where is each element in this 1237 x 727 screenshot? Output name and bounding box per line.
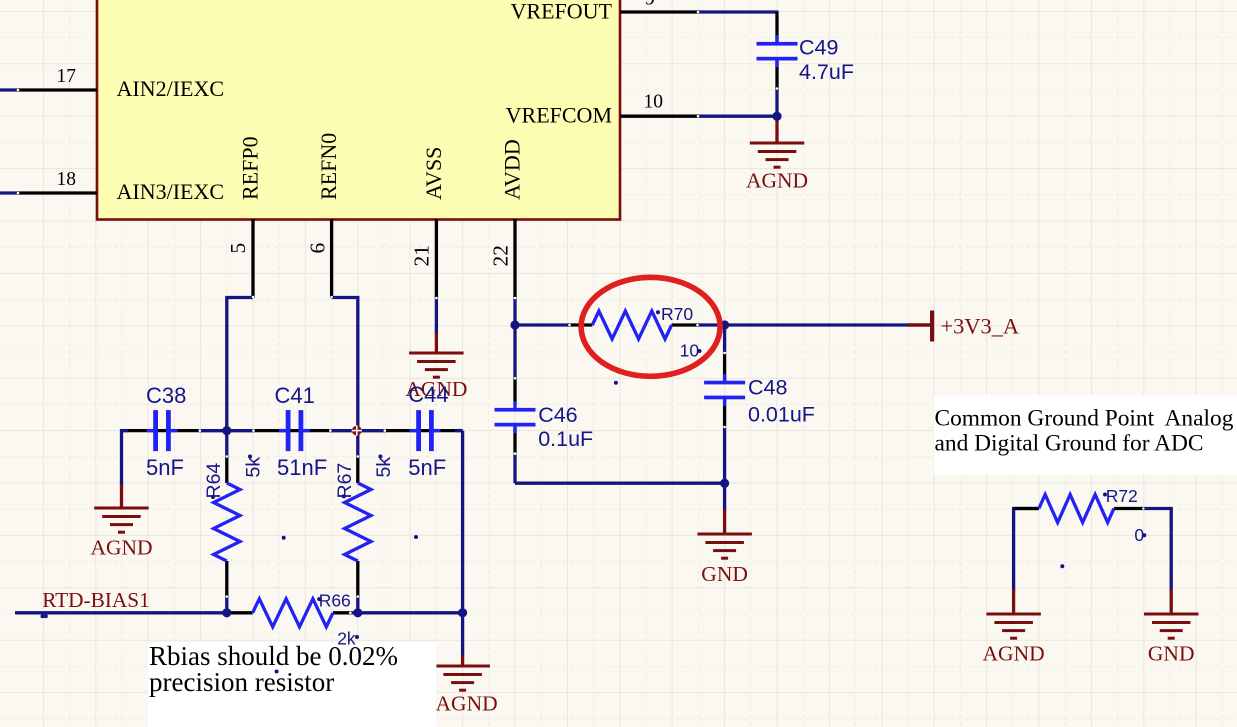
svg-text:5k: 5k <box>373 457 395 478</box>
svg-text:+3V3_A: +3V3_A <box>941 314 1020 339</box>
svg-text:REFP0: REFP0 <box>238 136 263 200</box>
svg-text:GND: GND <box>1148 642 1195 666</box>
svg-text:VREFOUT: VREFOUT <box>511 0 613 24</box>
svg-text:5nF: 5nF <box>146 455 184 480</box>
svg-text:R66: R66 <box>319 591 351 611</box>
svg-text:0.1uF: 0.1uF <box>538 427 593 451</box>
svg-text:Common Ground Point Analog: Common Ground Point Analog <box>935 406 1234 432</box>
svg-text:22: 22 <box>489 245 513 267</box>
svg-text:AVSS: AVSS <box>421 147 446 200</box>
svg-text:and Digital Ground for ADC: and Digital Ground for ADC <box>935 431 1204 457</box>
svg-text:51nF: 51nF <box>277 455 327 480</box>
svg-text:AIN2/IEXC: AIN2/IEXC <box>117 76 225 101</box>
svg-text:AIN3/IEXC: AIN3/IEXC <box>117 179 225 204</box>
svg-text:AGND: AGND <box>90 536 152 560</box>
svg-text:VREFCOM: VREFCOM <box>506 103 612 128</box>
svg-text:17: 17 <box>57 66 77 87</box>
svg-text:5: 5 <box>226 243 250 254</box>
svg-text:2k: 2k <box>337 629 356 649</box>
svg-text:C38: C38 <box>146 383 186 408</box>
svg-text:AVDD: AVDD <box>500 139 525 200</box>
svg-text:GND: GND <box>701 562 748 586</box>
svg-text:R67: R67 <box>334 463 356 499</box>
svg-text:6: 6 <box>306 243 330 254</box>
svg-text:21: 21 <box>410 245 434 267</box>
svg-text:RTD-BIAS1: RTD-BIAS1 <box>42 588 150 612</box>
svg-text:precision resistor: precision resistor <box>149 667 334 697</box>
svg-text:C44: C44 <box>408 382 448 407</box>
svg-text:R72: R72 <box>1106 486 1138 506</box>
svg-text:C48: C48 <box>748 376 787 400</box>
svg-text:R70: R70 <box>661 304 693 324</box>
svg-text:REFN0: REFN0 <box>316 133 341 200</box>
svg-text:18: 18 <box>57 169 77 190</box>
svg-text:C46: C46 <box>538 403 577 427</box>
svg-text:9: 9 <box>645 0 655 10</box>
svg-text:AGND: AGND <box>436 692 498 716</box>
svg-text:5k: 5k <box>243 457 265 478</box>
svg-text:AGND: AGND <box>746 169 808 193</box>
svg-text:C49: C49 <box>799 36 838 60</box>
svg-text:0.01uF: 0.01uF <box>748 403 815 427</box>
svg-text:10: 10 <box>644 92 664 113</box>
svg-text:AGND: AGND <box>983 642 1045 666</box>
svg-text:5nF: 5nF <box>408 455 446 480</box>
svg-text:10: 10 <box>680 341 700 361</box>
svg-text:4.7uF: 4.7uF <box>799 60 854 84</box>
svg-text:R64: R64 <box>203 463 225 499</box>
svg-text:C41: C41 <box>275 383 315 408</box>
